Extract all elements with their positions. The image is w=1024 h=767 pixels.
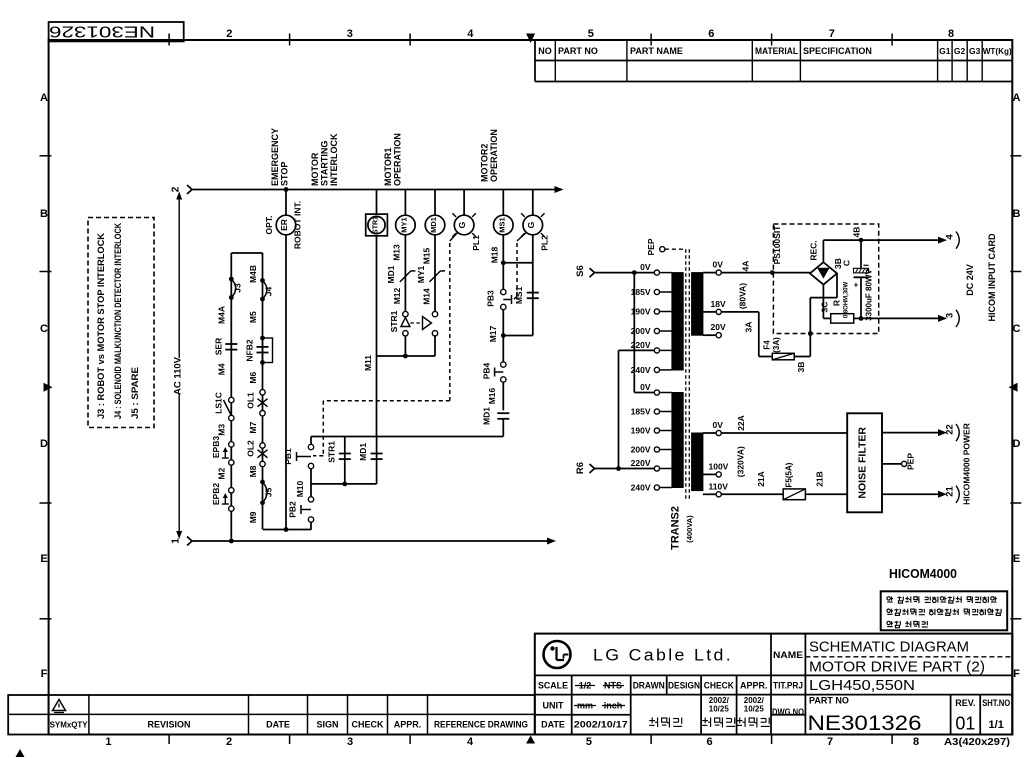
svg-text:MOTOR2: MOTOR2 bbox=[480, 144, 490, 182]
svg-text:REC.: REC. bbox=[809, 240, 819, 260]
svg-text:CHECK: CHECK bbox=[704, 681, 734, 691]
svg-text:(80VA): (80VA) bbox=[738, 283, 748, 309]
svg-text:NAME: NAME bbox=[773, 650, 803, 661]
svg-text:MY1: MY1 bbox=[416, 265, 426, 283]
svg-text:(3A): (3A) bbox=[772, 337, 781, 353]
svg-text:PB4: PB4 bbox=[482, 362, 492, 379]
svg-text:190V: 190V bbox=[631, 426, 651, 436]
svg-text:HICOM4000: HICOM4000 bbox=[889, 567, 957, 581]
svg-text:200V: 200V bbox=[631, 445, 651, 455]
svg-text:J3 : ROBOT vs MOTOR STOP INTER: J3 : ROBOT vs MOTOR STOP INTERLOCK bbox=[96, 232, 106, 419]
svg-text:1/1: 1/1 bbox=[989, 719, 1004, 731]
svg-text:ER: ER bbox=[279, 219, 289, 231]
svg-text:OL2: OL2 bbox=[245, 440, 255, 457]
svg-text:LG Cable Ltd.: LG Cable Ltd. bbox=[593, 647, 733, 665]
svg-text:21: 21 bbox=[945, 486, 956, 497]
svg-text:MOTOR: MOTOR bbox=[310, 152, 320, 186]
svg-text:AC 110V: AC 110V bbox=[173, 356, 184, 395]
svg-text:1: 1 bbox=[105, 736, 111, 748]
svg-text:3: 3 bbox=[347, 736, 353, 748]
svg-text:J4: J4 bbox=[264, 287, 274, 297]
svg-text:190V: 190V bbox=[631, 307, 651, 317]
svg-text:M5: M5 bbox=[248, 311, 258, 323]
svg-text:D: D bbox=[40, 438, 48, 450]
svg-text:22A: 22A bbox=[736, 415, 746, 431]
svg-text:4B: 4B bbox=[852, 227, 862, 238]
svg-text:CHECK: CHECK bbox=[351, 720, 384, 730]
svg-text:+: + bbox=[854, 281, 859, 290]
svg-text:DC 24V: DC 24V bbox=[965, 264, 975, 296]
svg-text:M18: M18 bbox=[489, 246, 499, 263]
svg-text:MOTOR1: MOTOR1 bbox=[383, 148, 393, 186]
svg-text:REFERENCE DRAWING: REFERENCE DRAWING bbox=[434, 720, 528, 730]
svg-text:NO: NO bbox=[538, 46, 552, 56]
svg-text:DESIGN: DESIGN bbox=[668, 681, 700, 691]
svg-text:M13: M13 bbox=[391, 244, 401, 261]
svg-text:3: 3 bbox=[945, 313, 956, 318]
svg-text:220V: 220V bbox=[631, 458, 651, 468]
svg-text:SHT.NO: SHT.NO bbox=[982, 698, 1010, 708]
svg-text:0V: 0V bbox=[713, 420, 724, 430]
svg-text:SCALE: SCALE bbox=[538, 681, 568, 691]
svg-text:185V: 185V bbox=[631, 407, 651, 417]
svg-text:B: B bbox=[40, 208, 48, 220]
svg-text:0V: 0V bbox=[640, 382, 651, 392]
svg-text:E: E bbox=[1013, 553, 1020, 565]
svg-text:J4 : SOLENOID MALKUNCTION DETE: J4 : SOLENOID MALKUNCTION DETECTOR INTER… bbox=[113, 223, 123, 419]
svg-text:M4A: M4A bbox=[217, 306, 227, 324]
svg-text:G1: G1 bbox=[939, 46, 951, 56]
svg-text:M16: M16 bbox=[487, 387, 497, 404]
svg-text:DWG.NO: DWG.NO bbox=[772, 707, 804, 717]
svg-text:4: 4 bbox=[467, 28, 474, 40]
svg-text:5: 5 bbox=[588, 28, 594, 40]
svg-text:PART NAME: PART NAME bbox=[630, 46, 683, 56]
svg-text:C: C bbox=[40, 323, 48, 335]
svg-text:OPT.: OPT. bbox=[264, 216, 274, 235]
svg-text:220V: 220V bbox=[631, 340, 651, 350]
svg-text:8: 8 bbox=[948, 28, 954, 40]
svg-text:M3: M3 bbox=[217, 424, 227, 436]
svg-text:4: 4 bbox=[945, 234, 956, 240]
svg-text:M4B: M4B bbox=[248, 265, 258, 283]
svg-text:TIT.PRJ: TIT.PRJ bbox=[773, 681, 803, 691]
svg-text:LGH450,550N: LGH450,550N bbox=[809, 678, 915, 694]
svg-text:ROBOT INT.: ROBOT INT. bbox=[293, 201, 303, 249]
svg-text:SER: SER bbox=[214, 338, 224, 355]
svg-text:NFB2: NFB2 bbox=[244, 339, 254, 361]
svg-text:OPERATION: OPERATION bbox=[393, 133, 403, 186]
svg-text:M14: M14 bbox=[421, 288, 431, 305]
svg-text:240V: 240V bbox=[631, 483, 651, 493]
svg-text:G: G bbox=[457, 221, 467, 228]
svg-text:100V: 100V bbox=[709, 461, 729, 471]
svg-text:M4: M4 bbox=[217, 363, 227, 375]
svg-text:3: 3 bbox=[347, 28, 353, 40]
svg-text:B: B bbox=[1013, 208, 1021, 220]
svg-text:MD1: MD1 bbox=[482, 407, 492, 425]
svg-text:C: C bbox=[1013, 323, 1021, 335]
svg-text:0.8OHM,30W: 0.8OHM,30W bbox=[844, 281, 850, 318]
svg-text:10/25: 10/25 bbox=[744, 705, 765, 714]
svg-text:UNIT: UNIT bbox=[543, 701, 564, 711]
svg-text:G2: G2 bbox=[954, 46, 966, 56]
svg-text:PS100SIT: PS100SIT bbox=[772, 225, 782, 265]
svg-text:DRAWN: DRAWN bbox=[633, 681, 665, 691]
svg-text:22: 22 bbox=[945, 424, 956, 435]
svg-text:18V: 18V bbox=[711, 299, 726, 309]
svg-text:G: G bbox=[526, 221, 536, 228]
svg-text:M10: M10 bbox=[295, 480, 305, 497]
svg-text:SYMxQTY: SYMxQTY bbox=[50, 720, 88, 730]
svg-text:DATE: DATE bbox=[541, 720, 565, 730]
svg-text:200V: 200V bbox=[631, 326, 651, 336]
svg-text:MD1: MD1 bbox=[358, 443, 368, 461]
svg-text:LS1C: LS1C bbox=[214, 392, 224, 414]
svg-text:M7: M7 bbox=[248, 422, 258, 434]
svg-text:1: 1 bbox=[171, 538, 182, 544]
svg-text:(320VA): (320VA) bbox=[736, 446, 746, 477]
svg-text:(400VA): (400VA) bbox=[685, 515, 694, 543]
svg-text:F: F bbox=[41, 668, 48, 680]
svg-text:185V: 185V bbox=[631, 287, 651, 297]
svg-text:NE301326: NE301326 bbox=[808, 712, 922, 735]
svg-text:WT(Kg): WT(Kg) bbox=[983, 46, 1012, 56]
svg-text:M9: M9 bbox=[248, 511, 258, 523]
svg-text:STOP: STOP bbox=[280, 162, 290, 186]
svg-text:STR1: STR1 bbox=[389, 310, 399, 332]
svg-text:3B: 3B bbox=[796, 362, 806, 373]
svg-text:2: 2 bbox=[226, 28, 232, 40]
svg-text:OL1: OL1 bbox=[245, 392, 255, 409]
svg-text:PEP: PEP bbox=[646, 238, 656, 255]
svg-text:PB2: PB2 bbox=[288, 501, 298, 518]
svg-text:MATERIAL: MATERIAL bbox=[755, 46, 798, 56]
svg-text:NOISE FILTER: NOISE FILTER bbox=[857, 427, 869, 499]
svg-text:F4: F4 bbox=[763, 340, 772, 350]
svg-text:PART NO: PART NO bbox=[558, 46, 598, 56]
svg-text:M15: M15 bbox=[421, 247, 431, 264]
svg-text:S6: S6 bbox=[575, 265, 586, 277]
svg-text:SCHEMATIC DIAGRAM: SCHEMATIC DIAGRAM bbox=[809, 639, 969, 656]
svg-text:7: 7 bbox=[827, 736, 833, 748]
svg-text:240V: 240V bbox=[631, 365, 651, 375]
svg-text:8: 8 bbox=[913, 736, 919, 748]
svg-text:EPB3: EPB3 bbox=[211, 436, 221, 458]
svg-text:C: C bbox=[842, 260, 852, 266]
svg-text:STARTING: STARTING bbox=[320, 141, 330, 186]
svg-text:10/25: 10/25 bbox=[709, 705, 730, 714]
svg-text:0V: 0V bbox=[640, 262, 651, 272]
svg-text:20V: 20V bbox=[711, 322, 726, 332]
svg-text:3300uF 80WV: 3300uF 80WV bbox=[865, 269, 874, 321]
svg-text:2002/10/17: 2002/10/17 bbox=[574, 720, 628, 730]
svg-text:F5(5A): F5(5A) bbox=[785, 462, 794, 487]
svg-text:J5: J5 bbox=[264, 487, 274, 497]
svg-text:MD1: MD1 bbox=[386, 265, 396, 283]
svg-text:PB3: PB3 bbox=[486, 290, 496, 307]
svg-text:PL1: PL1 bbox=[471, 235, 481, 251]
svg-text:110V: 110V bbox=[709, 481, 729, 491]
svg-text:3C: 3C bbox=[820, 302, 830, 313]
svg-text:6: 6 bbox=[706, 736, 712, 748]
svg-text:A: A bbox=[40, 92, 48, 104]
svg-text:F: F bbox=[1013, 668, 1020, 680]
svg-text:J5 : SPARE: J5 : SPARE bbox=[130, 367, 140, 419]
svg-text:HICOM4000 POWER: HICOM4000 POWER bbox=[962, 423, 972, 505]
svg-text:2: 2 bbox=[171, 186, 182, 192]
svg-text:4: 4 bbox=[467, 736, 474, 748]
svg-text:D: D bbox=[1013, 438, 1021, 450]
svg-text:APPR.: APPR. bbox=[394, 720, 422, 730]
svg-text:EMERGENCY: EMERGENCY bbox=[270, 128, 280, 186]
svg-text:0V: 0V bbox=[713, 260, 724, 270]
svg-text:PEP: PEP bbox=[906, 453, 916, 470]
svg-text:2: 2 bbox=[226, 736, 232, 748]
svg-text:M2: M2 bbox=[217, 467, 227, 479]
svg-text:M8: M8 bbox=[248, 465, 258, 477]
svg-text:MS1: MS1 bbox=[514, 286, 524, 304]
svg-text:PART NO: PART NO bbox=[809, 696, 849, 706]
svg-text:R6: R6 bbox=[575, 462, 586, 474]
svg-text:5: 5 bbox=[586, 736, 592, 748]
svg-text:DATE: DATE bbox=[266, 720, 290, 730]
svg-text:NE301326: NE301326 bbox=[49, 22, 155, 39]
svg-text:MY1: MY1 bbox=[399, 217, 408, 232]
svg-text:21A: 21A bbox=[756, 471, 766, 487]
svg-text:R: R bbox=[832, 300, 842, 306]
svg-text:3A: 3A bbox=[744, 322, 754, 333]
svg-text:EPB2: EPB2 bbox=[211, 483, 221, 505]
svg-text:01: 01 bbox=[955, 714, 975, 734]
svg-text:STR1: STR1 bbox=[327, 441, 337, 463]
svg-text:6: 6 bbox=[708, 28, 714, 40]
svg-text:A: A bbox=[1013, 92, 1021, 104]
svg-text:4A: 4A bbox=[740, 261, 750, 272]
svg-text:MS1: MS1 bbox=[497, 217, 506, 232]
svg-text:MD1: MD1 bbox=[429, 217, 438, 233]
svg-text:STR1: STR1 bbox=[373, 216, 380, 234]
svg-text:OPERATION: OPERATION bbox=[489, 129, 499, 182]
svg-text:G3: G3 bbox=[969, 46, 981, 56]
svg-text:MOTOR DRIVE PART (2): MOTOR DRIVE PART (2) bbox=[809, 659, 985, 676]
svg-text:REVISION: REVISION bbox=[147, 720, 190, 730]
svg-text:A3(420x297): A3(420x297) bbox=[944, 736, 1010, 748]
svg-text:INTERLOCK: INTERLOCK bbox=[329, 133, 339, 186]
svg-text:SPECIFICATION: SPECIFICATION bbox=[803, 46, 872, 56]
svg-text:M17: M17 bbox=[488, 325, 498, 342]
svg-text:J3: J3 bbox=[232, 283, 242, 293]
svg-text:TRANS2: TRANS2 bbox=[670, 506, 682, 550]
svg-text:M11: M11 bbox=[363, 355, 373, 371]
svg-text:HICOM INPUT CARD: HICOM INPUT CARD bbox=[987, 233, 997, 321]
svg-text:SIGN: SIGN bbox=[316, 720, 338, 730]
svg-text:M12: M12 bbox=[392, 287, 402, 304]
svg-text:M6: M6 bbox=[248, 372, 258, 384]
svg-text:PB1: PB1 bbox=[283, 448, 293, 465]
svg-text:7: 7 bbox=[829, 28, 835, 40]
svg-text:APPR.: APPR. bbox=[740, 681, 768, 691]
svg-text:PL2: PL2 bbox=[540, 235, 550, 251]
svg-text:21B: 21B bbox=[815, 471, 825, 487]
svg-text:REV.: REV. bbox=[955, 698, 975, 708]
svg-text:E: E bbox=[40, 553, 47, 565]
